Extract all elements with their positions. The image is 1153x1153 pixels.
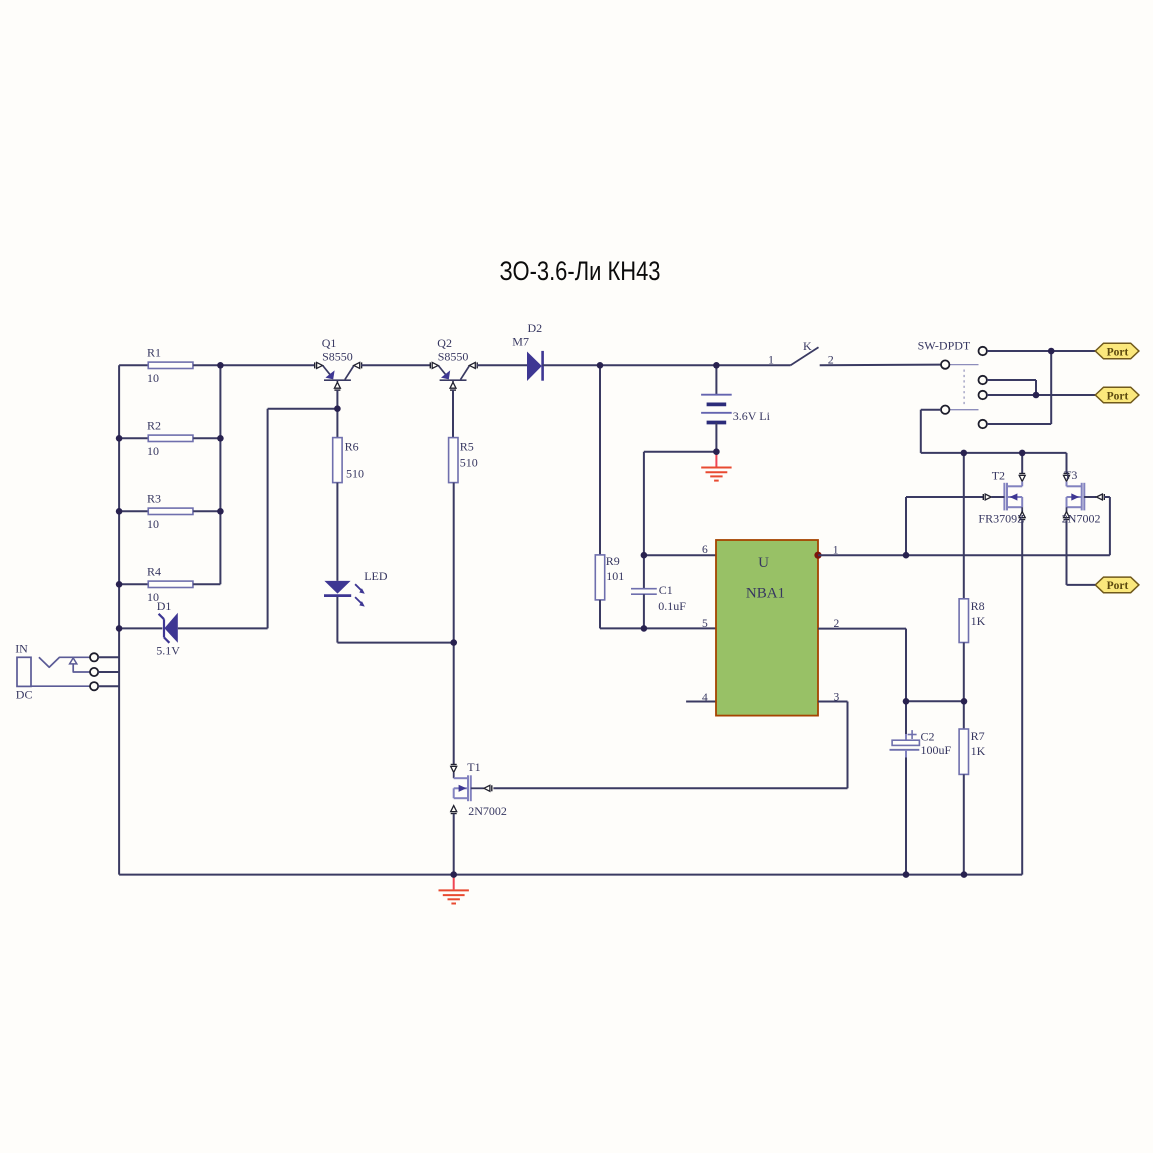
ground bottom xyxy=(439,875,469,904)
node R2-right xyxy=(217,435,224,442)
switch K xyxy=(768,339,834,366)
wire D1 to Q1 base xyxy=(178,409,338,629)
pin 1 dot xyxy=(814,552,821,559)
wire R3 row right xyxy=(193,510,220,512)
svg-text:T1: T1 xyxy=(467,760,480,774)
svg-text:101: 101 xyxy=(606,569,624,583)
port Port2 xyxy=(1095,387,1139,403)
svg-text:10: 10 xyxy=(147,444,159,458)
connector IN DC jack xyxy=(15,642,98,702)
transistor T2 FR3709Z xyxy=(978,453,1025,526)
battery BT1 3.6V Li xyxy=(701,395,770,423)
svg-text:R1: R1 xyxy=(147,346,161,360)
svg-text:1K: 1K xyxy=(971,744,986,758)
zener diode D1 xyxy=(156,599,180,657)
node Q1-base xyxy=(334,405,341,412)
svg-text:Port: Port xyxy=(1107,390,1129,402)
node R3-right xyxy=(217,508,224,515)
node pin1-T2gate xyxy=(903,552,910,559)
ground battery xyxy=(701,452,731,481)
resistor R2 xyxy=(147,419,193,458)
svg-text:2: 2 xyxy=(828,352,834,366)
resistor R4 xyxy=(147,565,193,604)
title text ЗО-3.6-Ли КН43 xyxy=(500,256,661,286)
node port1-throwA1 xyxy=(1048,348,1055,355)
wire jack sleeve to bus xyxy=(98,685,119,687)
port Port3 xyxy=(1095,577,1139,593)
wire node A to T1 xyxy=(453,643,455,765)
svg-text:R8: R8 xyxy=(971,599,985,613)
svg-text:2N7002: 2N7002 xyxy=(1062,512,1101,526)
svg-text:Q2: Q2 xyxy=(437,336,452,350)
wire T2 gate arrow xyxy=(983,494,1004,500)
svg-text:R5: R5 xyxy=(460,440,474,454)
wire throw B2 xyxy=(987,351,1051,424)
svg-text:510: 510 xyxy=(460,455,478,469)
wire C2 to R8 junction xyxy=(906,700,964,702)
wire R4 row right xyxy=(193,583,220,585)
wire R2 row left xyxy=(119,437,148,439)
node T1-source-rail xyxy=(450,871,457,878)
node A LED-R5 xyxy=(450,639,457,646)
resistor R9 xyxy=(595,554,624,600)
svg-text:6: 6 xyxy=(702,544,708,556)
wire R6 to LED xyxy=(336,483,338,581)
wire T2 gate net xyxy=(906,497,984,555)
transistor Q2 xyxy=(430,336,477,390)
node C2-rail xyxy=(903,871,910,878)
wire R9 to pin5 xyxy=(599,600,601,629)
wire throw A1 to port1 xyxy=(987,350,1095,352)
wire pin1 rail xyxy=(818,554,1110,556)
node D1-left xyxy=(116,625,123,632)
svg-text:D2: D2 xyxy=(528,321,543,335)
resistor R3 xyxy=(147,492,193,531)
wire throw B1 to port2 xyxy=(987,394,1095,396)
wire rail to battery xyxy=(715,365,717,394)
wire LED to node A xyxy=(337,597,453,643)
node R9-top xyxy=(597,362,604,369)
svg-text:IN: IN xyxy=(15,642,28,656)
wire bottom rail xyxy=(119,874,1022,876)
svg-text:Port: Port xyxy=(1107,580,1129,592)
transistor T3 2N7002 xyxy=(1062,453,1101,526)
svg-text:Q1: Q1 xyxy=(322,336,337,350)
wire R7 to bottom rail xyxy=(963,774,965,874)
node T2-drain xyxy=(1019,450,1026,457)
svg-text:R2: R2 xyxy=(147,419,161,433)
wire R3 row left xyxy=(119,510,148,512)
wire pin4 stub xyxy=(686,701,716,703)
svg-text:0.1uF: 0.1uF xyxy=(658,599,686,613)
wire R9 column xyxy=(599,365,601,555)
svg-text:2N7002: 2N7002 xyxy=(468,804,507,818)
svg-text:5: 5 xyxy=(702,618,708,630)
wire jack switch to bus xyxy=(98,671,119,673)
svg-text:NBA1: NBA1 xyxy=(746,586,785,602)
wire T3 source to port3 xyxy=(1067,521,1096,585)
node R8-top xyxy=(961,450,968,457)
node R7-rail xyxy=(961,871,968,878)
svg-text:100uF: 100uF xyxy=(921,743,952,757)
wire pin3 net xyxy=(493,702,847,789)
wire jack tip to bus xyxy=(98,656,119,658)
svg-text:ЗО-3.6-Ли КН43: ЗО-3.6-Ли КН43 xyxy=(500,256,661,286)
wire left vertical bus xyxy=(118,365,120,874)
svg-text:FR3709Z: FR3709Z xyxy=(978,512,1024,526)
node R4-left xyxy=(116,581,123,588)
svg-text:S8550: S8550 xyxy=(322,350,353,364)
svg-text:SW-DPDT: SW-DPDT xyxy=(918,338,971,352)
diode D2 xyxy=(512,321,542,381)
svg-text:T2: T2 xyxy=(992,469,1005,483)
node battery-neg xyxy=(713,448,720,455)
svg-text:1K: 1K xyxy=(971,614,986,628)
node C2-top xyxy=(903,698,910,705)
svg-text:R6: R6 xyxy=(345,440,359,454)
svg-text:M7: M7 xyxy=(512,334,529,348)
svg-text:C2: C2 xyxy=(921,730,935,744)
svg-text:S8550: S8550 xyxy=(438,350,469,364)
wire battery to ground node xyxy=(715,423,717,452)
wire D1 row from bus xyxy=(119,627,162,629)
wire R2 row right xyxy=(193,437,220,439)
svg-text:D1: D1 xyxy=(157,599,172,613)
wire pin2 net xyxy=(818,629,906,702)
wire R1 row right xyxy=(193,364,220,366)
wire right sub-bus xyxy=(219,365,221,584)
svg-text:510: 510 xyxy=(346,467,364,481)
svg-text:R3: R3 xyxy=(147,492,161,506)
resistor R6 xyxy=(333,438,364,483)
node R1-right xyxy=(217,362,224,369)
svg-text:U: U xyxy=(758,555,769,571)
wire R4 row left xyxy=(119,583,148,585)
node R8-R7 xyxy=(961,698,968,705)
transistor T1 xyxy=(451,760,507,875)
wire D2 to switch K xyxy=(543,364,791,366)
capacitor C1 xyxy=(631,555,686,628)
svg-text:10: 10 xyxy=(147,371,159,385)
node R3-left xyxy=(116,508,123,515)
svg-text:DC: DC xyxy=(16,688,33,702)
svg-text:R4: R4 xyxy=(147,565,161,579)
switch SW-DPDT xyxy=(918,338,987,428)
node R2-left xyxy=(116,435,123,442)
svg-text:10: 10 xyxy=(147,517,159,531)
wire battery-neg to C1 column xyxy=(644,452,717,556)
svg-text:R7: R7 xyxy=(971,729,985,743)
svg-text:1: 1 xyxy=(768,352,774,366)
wire K to SW-DPDT xyxy=(820,364,941,367)
wire Q1 to Q2 xyxy=(361,364,430,366)
resistor R5 xyxy=(449,438,478,483)
wire pin5 row xyxy=(600,627,716,629)
resistor R7 xyxy=(959,729,986,774)
svg-text:T3: T3 xyxy=(1064,468,1077,482)
resistor R1 xyxy=(147,346,193,385)
svg-text:R9: R9 xyxy=(606,554,620,568)
wire R8 column top xyxy=(963,453,965,599)
wire top rail to Q1 xyxy=(220,364,315,366)
svg-text:5.1V: 5.1V xyxy=(156,644,180,658)
node port2-throwA2 xyxy=(1033,392,1040,399)
wire throw A2 xyxy=(987,380,1036,395)
wire Q2 to D2 xyxy=(477,364,527,366)
wire R8 to R7 xyxy=(963,643,965,730)
svg-text:LED: LED xyxy=(364,569,388,583)
svg-text:C1: C1 xyxy=(659,583,673,597)
wire Q1 base to R6 xyxy=(336,390,338,438)
node pin6-C1 xyxy=(641,552,648,559)
resistor R8 xyxy=(959,599,986,643)
svg-text:Port: Port xyxy=(1107,346,1129,358)
port Port1 xyxy=(1095,343,1139,359)
wire R1 row left xyxy=(119,364,148,366)
wire pin6 row xyxy=(644,554,716,556)
LED D3 xyxy=(324,569,388,607)
svg-text:K: K xyxy=(803,339,812,353)
node battery-top xyxy=(713,362,720,369)
transistor Q1 xyxy=(315,336,362,390)
wire R5 to node A xyxy=(453,483,455,643)
wire Q2 to R5 xyxy=(452,390,454,438)
op-amp U NBA1 xyxy=(702,540,839,716)
node pin5-C1 xyxy=(641,625,648,632)
wire pole B net xyxy=(921,410,1067,453)
capacitor C2 xyxy=(890,701,952,874)
svg-text:3.6V Li: 3.6V Li xyxy=(733,409,771,423)
wire T3 gate net xyxy=(1084,494,1110,555)
svg-text:4: 4 xyxy=(702,692,708,704)
wire T2 source down xyxy=(1021,521,1023,875)
